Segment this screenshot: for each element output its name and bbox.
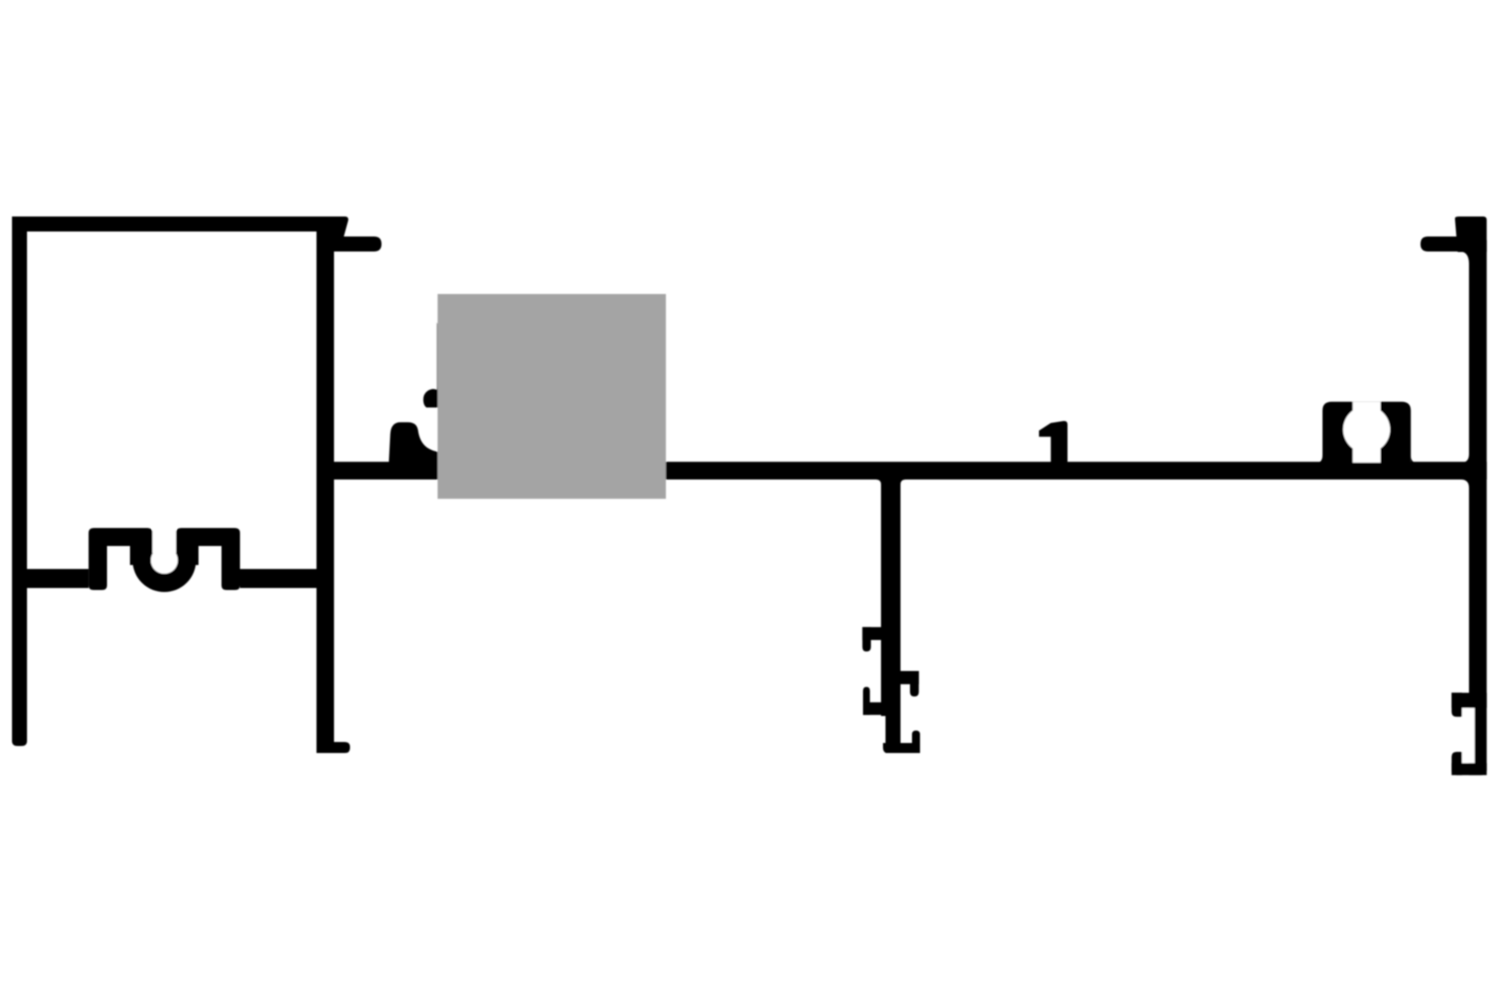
right bracket bottom bar xyxy=(1452,763,1487,775)
right stub xyxy=(1421,237,1470,252)
right vertical bar xyxy=(1469,240,1487,775)
screw channel right block xyxy=(176,528,240,546)
bottom band left segment xyxy=(27,569,89,588)
gasket upper blob xyxy=(423,385,440,408)
post right tooth lip xyxy=(910,671,919,697)
post right up-leg xyxy=(912,731,920,754)
right wall foot xyxy=(317,742,351,753)
screw channel slot opening (white) xyxy=(153,517,177,553)
right wall of box xyxy=(317,217,335,754)
rail to right-bar bottom fillet xyxy=(1461,480,1469,489)
screw channel right tooth xyxy=(178,546,199,565)
stub on right of box xyxy=(334,237,382,252)
post left channel top arm xyxy=(862,627,881,640)
rail to right-bar top fillet xyxy=(1461,454,1469,463)
faint hidden edge line xyxy=(437,323,439,391)
head to bar fillet xyxy=(1463,252,1469,264)
main horizontal rail xyxy=(334,462,1487,480)
screw channel bore (white) xyxy=(151,547,178,574)
screw channel left leg xyxy=(89,546,107,590)
right screw channel left base fillet xyxy=(1317,455,1323,463)
tab shaped like 1 on rail xyxy=(1039,421,1068,463)
rail to post left fillet xyxy=(876,480,881,485)
top bar of left box xyxy=(12,217,334,232)
right screw channel mouth (white) xyxy=(1353,402,1381,463)
center post lower section xyxy=(886,700,901,753)
gray panel square xyxy=(438,294,666,499)
screw channel right leg xyxy=(222,546,241,590)
screw channel left tooth xyxy=(130,546,151,565)
post left channel lower lip xyxy=(863,687,870,715)
rail to post right fillet xyxy=(901,480,906,485)
post right tooth arm xyxy=(901,671,919,684)
right screw channel block pair xyxy=(1323,402,1411,463)
right bracket lower lip xyxy=(1452,752,1462,775)
right bar head xyxy=(1455,217,1487,253)
right screw channel bore (white) xyxy=(1343,406,1390,453)
left wall of box xyxy=(12,217,27,747)
screw channel ring xyxy=(133,529,197,593)
gasket lower knob xyxy=(389,422,440,463)
nib at right end of top bar xyxy=(334,217,348,237)
right bracket pocket (white) xyxy=(1462,708,1475,763)
post left channel upper lip xyxy=(862,627,871,651)
post left channel bottom arm xyxy=(863,702,901,715)
right bracket upper lip xyxy=(1452,693,1462,717)
right bracket top arm xyxy=(1452,693,1487,708)
screw channel left block xyxy=(89,528,153,546)
bottom band right segment xyxy=(240,569,317,588)
center post upper section xyxy=(881,480,901,717)
right screw channel right base fillet xyxy=(1411,455,1417,463)
post foot xyxy=(883,743,920,753)
